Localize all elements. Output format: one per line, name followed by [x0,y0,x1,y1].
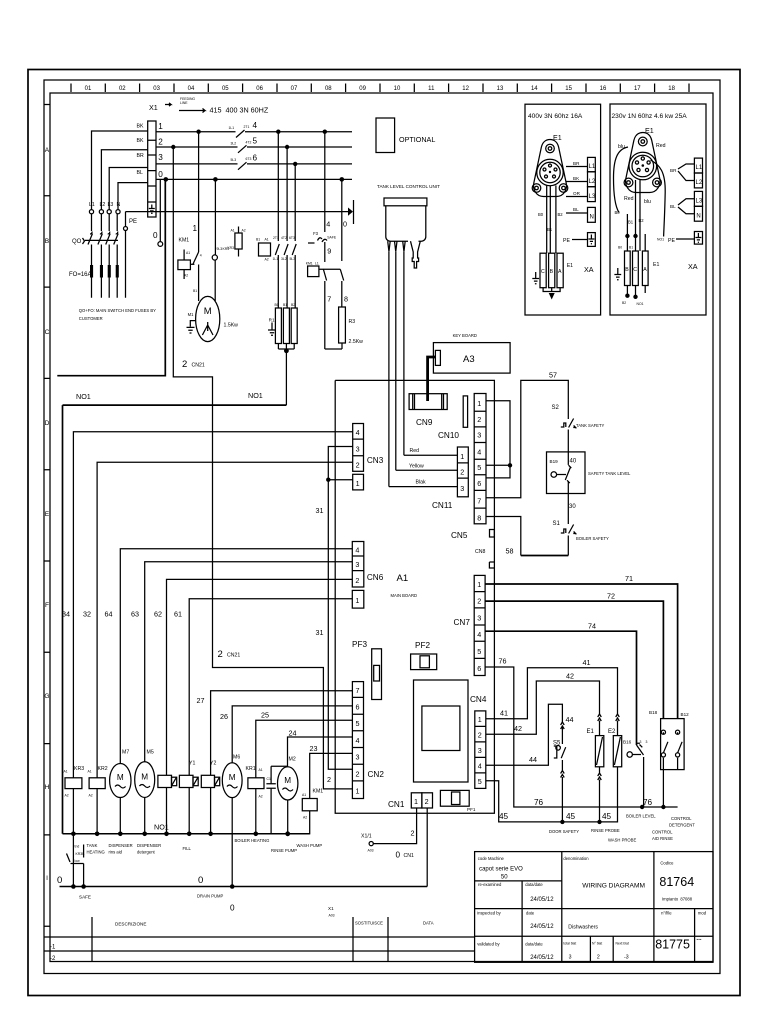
svg-text:Red: Red [656,143,666,149]
svg-text:2: 2 [218,649,223,660]
svg-text:RINSE PUMP: RINSE PUMP [271,848,297,853]
svg-text:4: 4 [200,254,202,258]
svg-text:E1: E1 [587,729,595,735]
svg-text:3: 3 [356,445,360,454]
svg-text:Dishwashers: Dishwashers [568,925,598,931]
svg-text:L2: L2 [696,180,703,186]
svg-text:A03: A03 [368,849,374,853]
svg-text:45: 45 [602,812,612,821]
svg-text:C: C [541,269,545,275]
fill valve Y1 [179,761,198,837]
svg-text:14: 14 [531,86,538,92]
svg-text:0: 0 [57,875,62,886]
svg-text:3: 3 [356,753,360,762]
230v terminal strip [670,158,703,221]
svg-text:E1: E1 [567,263,573,269]
component function labels [87,838,323,855]
svg-text:BL: BL [137,170,143,176]
svg-text:9: 9 [327,247,331,256]
svg-text:40: 40 [570,459,577,465]
motor M6 drain pump [222,755,242,889]
svg-text:4: 4 [477,448,481,457]
wash probe E2 [608,714,622,782]
400v PE terminal [563,233,595,247]
svg-text:A2: A2 [65,794,69,798]
svg-text:3L2: 3L2 [281,257,287,261]
svg-text:A: A [45,147,50,154]
svg-text:3: 3 [477,431,481,440]
svg-text:KR2: KR2 [98,766,108,772]
svg-text:BK: BK [573,176,580,181]
svg-text:mod: mod [698,911,707,916]
wire 44 CN4.4 to S5 [486,704,574,765]
svg-text:B1: B1 [256,238,260,242]
svg-text:5: 5 [356,719,360,728]
svg-text:DATA: DATA [423,921,434,926]
svg-text:NO1: NO1 [657,238,664,242]
svg-text:CN11: CN11 [432,501,453,510]
svg-text:SAFETY TANK LEVEL: SAFETY TANK LEVEL [588,471,631,476]
motor M7 dispenser rinse aid [110,750,131,837]
svg-text:N: N [590,215,594,221]
svg-text:CN6: CN6 [367,573,384,582]
neutral line 0 [156,177,352,182]
svg-text:M: M [117,773,124,782]
svg-text:Y2: Y2 [210,761,216,767]
svg-text:A2: A2 [242,229,246,233]
svg-text:3: 3 [640,740,642,744]
svg-text:XA: XA [688,262,698,271]
svg-text:6T3: 6T3 [246,157,252,161]
tank unit wires down (Blak Yellow Red) [389,251,404,486]
fill valve Y1a [158,775,177,836]
svg-text:PF3: PF3 [352,640,367,649]
svg-text:A1: A1 [397,573,409,584]
svg-text:9L3: 9L3 [217,247,223,251]
svg-text:SAFE: SAFE [79,895,91,900]
svg-text:45: 45 [499,812,509,821]
svg-text:Red: Red [624,196,634,202]
svg-text:MAIN BOARD: MAIN BOARD [391,593,418,598]
svg-text:E1: E1 [653,262,659,268]
svg-text:-2: -2 [50,956,56,962]
svg-text:I: I [46,875,48,882]
svg-text:Blak: Blak [416,480,426,486]
svg-text:TANK LEVEL CONTROL UNIT: TANK LEVEL CONTROL UNIT [377,184,440,189]
svg-text:1: 1 [356,787,360,796]
svg-text:03: 03 [153,86,160,92]
svg-text:2: 2 [460,468,464,477]
svg-text:DETERGENT: DETERGENT [669,823,695,828]
svg-text:2: 2 [478,731,482,740]
svg-text:A2: A2 [259,795,263,799]
svg-text:B16: B16 [623,740,632,745]
svg-text:8: 8 [344,295,348,304]
svg-text:1: 1 [478,715,482,724]
svg-text:HEATING: HEATING [87,850,105,855]
main board A1 box [335,380,494,813]
svg-text:44: 44 [529,755,537,764]
svg-text:7: 7 [477,497,481,506]
wire 24 CN2.4 to M2 [288,729,353,767]
svg-text:4: 4 [356,736,360,745]
svg-text:CONTROL: CONTROL [652,830,673,835]
svg-text:24/05/12: 24/05/12 [530,897,554,903]
connector CN5 pins 1-8 [451,394,486,556]
svg-text:01: 01 [85,86,92,92]
svg-text:5: 5 [477,647,481,656]
svg-text:2: 2 [425,797,429,806]
svg-text:0: 0 [343,220,347,229]
svg-text:6T3: 6T3 [289,236,295,240]
svg-text:0: 0 [230,904,235,913]
svg-text:S1: S1 [553,521,561,527]
svg-text:KEY BOARD: KEY BOARD [453,333,477,338]
svg-text:C: C [633,267,637,273]
svg-text:6: 6 [477,664,481,673]
motor M5 dispenser detergent [135,750,155,837]
svg-text:A1: A1 [302,793,306,797]
svg-text:tnd: tnd [75,845,80,849]
svg-text:4: 4 [478,762,482,771]
svg-text:63: 63 [131,610,139,619]
contactor coil KM1 (top) [178,238,191,280]
svg-text:WASH PUMP: WASH PUMP [297,843,323,848]
PE line [126,200,354,224]
0 bus [57,875,427,918]
svg-text:CN1: CN1 [404,853,414,859]
stub with 0 terminal to KM1 [153,180,163,246]
svg-text:02: 02 [119,86,126,92]
svg-text:KM1: KM1 [179,238,190,244]
wire 74 CN7.4 to B16 [485,622,636,746]
svg-text:0: 0 [198,875,203,886]
svg-text:CN2: CN2 [368,770,385,779]
svg-text:CONTROL: CONTROL [671,816,692,821]
svg-text:2T1: 2T1 [244,125,250,129]
connector CN10 [438,396,468,440]
svg-text:M1: M1 [188,312,194,317]
svg-text:6: 6 [356,703,360,712]
svg-text:NO1: NO1 [248,391,263,400]
svg-text:B: B [625,267,629,273]
svg-text:SAFE: SAFE [327,236,337,240]
svg-text:B0: B0 [615,210,621,215]
svg-text:08: 08 [325,86,332,92]
svg-text:A1: A1 [259,768,263,772]
phase bus line 1/4 [156,121,352,138]
svg-text:4: 4 [253,121,258,130]
svg-text:76: 76 [643,798,653,807]
svg-text:415 400 3N 60HZ: 415 400 3N 60HZ [210,106,269,115]
NO1 labels top [76,391,263,401]
svg-text:KM1: KM1 [313,789,324,795]
svg-text:B: B [45,238,50,245]
svg-text:41: 41 [500,709,508,718]
capacitor C1 [266,766,287,834]
svg-text:BK: BK [137,138,144,144]
svg-text:NO1: NO1 [154,823,169,832]
svg-text:code Machine: code Machine [478,856,505,861]
svg-text:AID RINSE: AID RINSE [652,836,673,841]
svg-text:CN1: CN1 [388,800,405,809]
svg-text:blu: blu [644,199,651,205]
connector CN6 [352,542,383,609]
svg-text:N: N [117,202,121,208]
svg-text:TANK: TANK [87,843,98,848]
terminal X1/1 wire to CN1.1 [361,808,417,860]
svg-text:PF1: PF1 [467,807,476,812]
svg-text:4: 4 [477,630,481,639]
NO1 bus [63,823,310,834]
svg-text:12: 12 [462,86,469,92]
svg-text:date: date [526,911,535,916]
svg-text:L3: L3 [108,202,114,208]
svg-text:LINE: LINE [180,101,188,105]
svg-text:2: 2 [477,597,481,606]
svg-text:09: 09 [359,86,366,92]
svg-text:A1: A1 [88,770,92,774]
svg-text:A03: A03 [329,914,335,918]
svg-text:Next blat: Next blat [616,942,629,946]
svg-text:CN10: CN10 [438,431,459,440]
svg-text:E2: E2 [608,729,616,735]
svg-text:10: 10 [394,86,401,92]
title block [475,852,713,963]
svg-text:BL: BL [670,204,676,209]
svg-text:0: 0 [153,231,158,240]
svg-text:61: 61 [174,610,182,619]
svg-text:04: 04 [188,86,195,92]
svg-text:2: 2 [356,461,360,470]
svg-text:B1: B1 [629,246,633,250]
svg-text:CN9: CN9 [416,418,433,427]
svg-text:n°/file: n°/file [661,911,672,916]
svg-text:3L2: 3L2 [231,141,237,145]
svg-text:5: 5 [253,137,258,146]
svg-text:4T2: 4T2 [281,236,287,240]
svg-text:OPTIONAL: OPTIONAL [399,135,435,144]
svg-text:6: 6 [477,479,481,488]
svg-text:M6: M6 [233,755,240,761]
svg-text:QO: QO [72,239,82,245]
svg-text:3: 3 [569,955,572,961]
svg-text:30: 30 [569,504,576,510]
svg-text:4: 4 [326,220,330,229]
svg-text:13: 13 [497,86,504,92]
svg-text:M2: M2 [289,757,296,763]
wire 72 CN7.2 to B18 [485,592,663,719]
svg-text:total blat: total blat [563,942,576,946]
400v fuse bars C B A with E1 [532,253,593,299]
svg-text:81764: 81764 [659,875,694,889]
svg-text:PE: PE [563,238,570,244]
svg-text:1L1: 1L1 [273,257,279,261]
svg-text:PE: PE [129,219,137,225]
svg-text:B12: B12 [681,712,690,717]
svg-text:A2: A2 [303,816,307,820]
svg-text:23: 23 [310,744,318,753]
svg-text:A2: A2 [89,794,93,798]
wire 0/8 with KM1 contact and boiler resistor R3 [339,179,364,349]
svg-text:A3: A3 [463,354,475,365]
svg-text:rins aid: rins aid [109,850,123,855]
wire 76 CN7.6 bus [485,657,677,810]
svg-text:A1: A1 [64,770,68,774]
wire 23 CN2.3 to KM1 coil [310,744,353,799]
svg-text:FILL: FILL [183,846,192,851]
svg-text:BL: BL [573,207,579,212]
wire 41 CN4.1 to E2 [486,658,618,719]
svg-text:L1: L1 [696,165,703,171]
svg-text:3: 3 [158,153,163,162]
svg-text:A1: A1 [265,238,269,242]
svg-text:CN8: CN8 [475,549,485,555]
incoming supply wires to L1 L2 L3 N [89,131,148,214]
svg-text:DOOR SAFETY: DOOR SAFETY [549,829,579,834]
svg-text:DISPENSER: DISPENSER [109,843,133,848]
wire 34 CN3.4 to KR3 [62,432,353,778]
svg-text:denomination: denomination [563,856,589,861]
svg-text:-1: -1 [50,945,56,951]
tank level control unit [377,184,440,268]
boiler level sensor B16 [623,740,648,808]
svg-text:XA: XA [584,265,594,274]
wire 2 / CN21 long run to CN2.1 [173,147,352,789]
svg-text:1L1: 1L1 [229,126,235,130]
svg-text:data/date: data/date [525,882,543,887]
svg-text:BOILER LEVEL: BOILER LEVEL [626,814,656,819]
svg-text:Yellow: Yellow [409,464,424,470]
svg-text:1: 1 [356,479,360,488]
svg-text:1: 1 [355,596,359,605]
wire 26 CN2.6 to M6 [220,706,352,763]
svg-text:B2: B2 [639,218,645,223]
svg-text:1: 1 [460,452,464,461]
svg-text:2: 2 [356,770,360,779]
svg-text:26: 26 [220,712,228,721]
PF2 element [411,641,437,670]
svg-text:64: 64 [105,610,113,619]
svg-text:1: 1 [192,224,197,233]
svg-text:6: 6 [253,153,258,162]
wire 25 CN2.5 to KR1 [256,711,353,778]
svg-text:2: 2 [477,415,481,424]
svg-text:62: 62 [154,610,162,619]
svg-text:WASH PROBE: WASH PROBE [608,838,636,843]
svg-text:3: 3 [646,740,648,744]
svg-text:2: 2 [327,775,331,784]
svg-text:TANK SAFETY: TANK SAFETY [576,423,605,428]
svg-text:L1: L1 [315,262,319,266]
svg-text:Impianto 87088: Impianto 87088 [662,897,693,902]
svg-text:2: 2 [597,955,600,961]
svg-text:NO1: NO1 [76,392,91,401]
svg-text:F: F [45,602,49,609]
svg-text:KR3: KR3 [227,246,234,250]
left row letters [44,105,50,927]
svg-text:1: 1 [158,122,163,131]
svg-text:B: B [550,269,554,275]
wire 61 CN6.1 to valve Y1b [174,599,352,776]
wire 31 CN3.3 / CN3.1 to CN2.2 [316,447,353,785]
safety tank level label [569,471,631,510]
relay KR1 boiler heating [246,766,265,836]
svg-text:L2: L2 [100,202,106,208]
svg-text:400v 3N 60hz 16A: 400v 3N 60hz 16A [528,113,583,120]
thermal overload B1 block [256,238,271,262]
door safety switch S5 [553,722,566,824]
main switch QO [72,214,118,245]
svg-text:M5: M5 [147,750,154,756]
svg-text:D: D [45,420,50,427]
svg-text:0: 0 [396,851,401,860]
svg-text:-3: -3 [624,955,629,961]
svg-text:B0: B0 [618,246,622,250]
wire 63 CN6.3 to M5 [131,562,352,762]
svg-text:5L3: 5L3 [290,257,296,261]
svg-text:44: 44 [566,715,574,724]
wire 64 CN6.4 to M7 [105,549,353,764]
svg-text:BK: BK [137,124,144,130]
svg-text:re-examined: re-examined [478,882,502,887]
relay KR3 with safety contact KR3B [64,766,86,889]
svg-text:DRAIN PUMP: DRAIN PUMP [197,894,223,899]
svg-text:74: 74 [588,622,596,631]
svg-text:B19: B19 [550,459,559,464]
wire 45 CN4.5 bus [486,781,618,822]
svg-text:CN4: CN4 [470,695,487,704]
svg-text:24: 24 [289,729,297,738]
svg-text:SOSTITUISCE: SOSTITUISCE [355,921,383,926]
svg-text:58: 58 [506,547,514,556]
svg-text:81775: 81775 [655,938,690,952]
svg-text:17: 17 [634,86,641,92]
svg-text:KR1: KR1 [246,766,256,772]
svg-text:RINSE PROBE: RINSE PROBE [591,828,620,833]
svg-text:3: 3 [355,560,359,569]
svg-text:L3: L3 [696,198,703,204]
230v connector pins and fuse bars [614,179,659,306]
svg-text:15: 15 [565,86,572,92]
svg-text:A: A [643,267,647,273]
svg-text:3: 3 [477,614,481,623]
svg-text:76: 76 [534,798,544,807]
svg-text:X1: X1 [328,906,334,911]
svg-text:32: 32 [83,610,91,619]
svg-text:42: 42 [514,724,522,733]
svg-text:M7: M7 [122,750,129,756]
svg-text:B1: B1 [628,220,634,225]
svg-text:R3: R3 [349,319,356,325]
wire 71 CN7.1 to B12 [485,574,677,719]
svg-text:B2: B2 [558,212,564,217]
svg-text:M: M [229,773,236,782]
svg-text:05: 05 [222,86,229,92]
svg-text:CN5: CN5 [451,531,468,540]
svg-text:F3: F3 [313,231,319,236]
svg-text:C1: C1 [267,777,271,781]
svg-text:27: 27 [197,696,205,705]
svg-text:data/date: data/date [525,942,543,947]
svg-text:X1: X1 [149,103,158,112]
phase bus line 3/6 [156,153,352,169]
svg-text:7: 7 [356,686,360,695]
svg-text:Codice: Codice [660,861,674,866]
connector CN3 [353,424,384,490]
svg-text:validated by: validated by [477,942,500,947]
svg-text:Y1: Y1 [189,761,195,767]
